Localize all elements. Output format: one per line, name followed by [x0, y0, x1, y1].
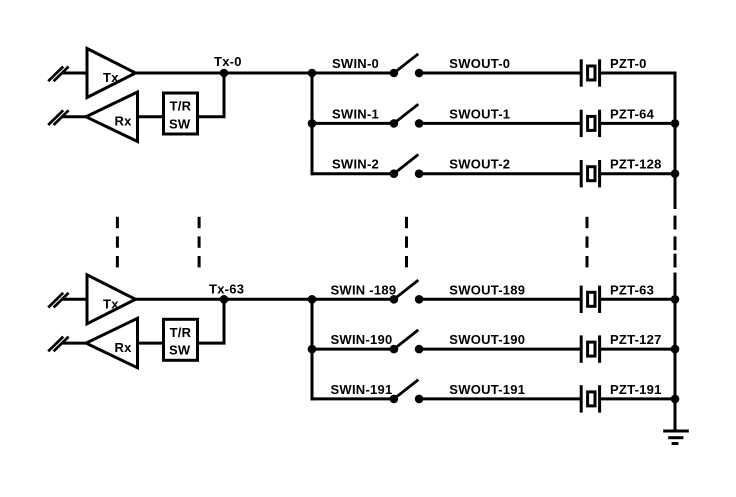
wire: node Tx-63 to left bus — [224, 298, 312, 301]
svg-text:PZT-63: PZT-63 — [610, 282, 654, 297]
svg-text:PZT-0: PZT-0 — [610, 56, 647, 71]
dashed continuation: PZT column — [586, 217, 589, 268]
wire: Rx input from T/R SW (bottom channel) — [138, 342, 163, 345]
svg-text:SWOUT-2: SWOUT-2 — [449, 157, 510, 172]
svg-text:Rx: Rx — [115, 340, 133, 355]
wire: left bus to switch SWIN-190 — [311, 348, 394, 351]
wire: left bus (top section) — [311, 73, 314, 175]
svg-text:PZT-128: PZT-128 — [610, 157, 662, 172]
node Tx-63 junction dot — [220, 295, 229, 304]
svg-text:SWOUT-0: SWOUT-0 — [449, 56, 510, 71]
amplifier Tx (top channel) — [87, 49, 136, 98]
dashed continuation: right bus — [674, 216, 677, 268]
junction dot: right bus at PZT-64 — [671, 119, 680, 128]
wire: PZT-191 to right bus — [600, 397, 675, 400]
dashed continuation: T/R SW column — [198, 217, 201, 268]
svg-text:Tx: Tx — [103, 296, 119, 311]
wire: T/R SW output up to node Tx-0 — [199, 73, 224, 117]
wire: left bus to switch SWIN-1 — [311, 122, 394, 125]
junction dot: left bus at SWIN-0 — [308, 69, 317, 78]
svg-text:PZT-64: PZT-64 — [610, 106, 655, 121]
wire: left bus to switch SWIN -189 — [311, 298, 394, 301]
wire: switch to PZT-127 — [419, 348, 581, 351]
wire: Tx input stub (bottom channel) — [63, 298, 87, 301]
wire: switch to PZT-128 — [419, 172, 581, 175]
wire: Rx output stub (top channel) — [63, 115, 86, 118]
wire: PZT-63 to right bus — [600, 298, 675, 301]
dashed continuation: amplifier column — [116, 217, 119, 268]
transducer PZT-128 (crystal symbol) — [581, 160, 599, 187]
svg-text:SWOUT-190: SWOUT-190 — [449, 332, 525, 347]
svg-text:SWOUT-189: SWOUT-189 — [449, 282, 525, 297]
amplifier Tx (bottom channel) — [87, 275, 136, 324]
wire: right bus (bottom section, to ground) — [674, 273, 677, 432]
svg-text:SWOUT-191: SWOUT-191 — [449, 382, 525, 397]
svg-text:Tx-63: Tx-63 — [209, 281, 244, 296]
switch SWIN-190/SWOUT-190 (open SPST) — [390, 330, 424, 354]
wire: Tx output to node Tx-0 — [136, 72, 225, 75]
svg-text:PZT-127: PZT-127 — [610, 332, 662, 347]
svg-text:T/R: T/R — [170, 325, 192, 340]
wire: PZT-0 to right bus — [600, 72, 675, 75]
switch SWIN -189/SWOUT-189 (open SPST) — [390, 280, 424, 304]
wire: T/R SW output up to node Tx-63 — [199, 299, 224, 343]
amplifier Rx (top channel) — [86, 92, 138, 142]
switch SWIN-1/SWOUT-1 (open SPST) — [390, 104, 424, 128]
wire: left bus (bottom section) — [311, 299, 314, 400]
transducer PZT-64 (crystal symbol) — [581, 110, 599, 137]
continuation slashes on Rx output (top channel) — [48, 110, 68, 125]
wire: switch to PZT-63 — [419, 298, 581, 301]
continuation slashes on Tx input (top channel) — [48, 67, 68, 82]
wire: switch to PZT-64 — [419, 122, 581, 125]
wire: switch to PZT-191 — [419, 397, 581, 400]
svg-text:PZT-191: PZT-191 — [610, 382, 662, 397]
junction dot: right bus at PZT-127 — [671, 345, 680, 354]
transducer PZT-63 (crystal symbol) — [581, 286, 599, 313]
T/R switch box (bottom channel) — [164, 319, 198, 360]
wire: left bus to switch SWIN-0 — [311, 72, 394, 75]
svg-text:SWIN-191: SWIN-191 — [331, 382, 393, 397]
junction dot: left bus at SWIN-190 — [308, 345, 317, 354]
switch SWIN-0/SWOUT-0 (open SPST) — [390, 54, 424, 77]
wire: right bus (top section) — [674, 72, 677, 210]
svg-text:SW: SW — [169, 116, 191, 131]
wire: PZT-128 to right bus — [600, 172, 675, 175]
node Tx-0 junction dot — [220, 69, 229, 78]
wire: node Tx-0 to left bus — [224, 72, 312, 75]
wire: Tx output to node Tx-63 — [136, 298, 225, 301]
wire: PZT-127 to right bus — [600, 348, 675, 351]
svg-text:Tx: Tx — [103, 70, 119, 85]
switch SWIN-2/SWOUT-2 (open SPST) — [390, 155, 424, 179]
transducer PZT-0 (crystal symbol) — [581, 59, 599, 86]
junction dot: left bus at SWIN-1 — [308, 119, 317, 128]
svg-text:T/R: T/R — [170, 99, 192, 114]
T/R switch box (top channel) — [164, 93, 198, 134]
junction dot: left bus at SWIN -189 — [308, 295, 317, 304]
junction dot: right bus at PZT-191 — [671, 395, 680, 404]
ground symbol — [663, 431, 689, 444]
svg-text:SWOUT-1: SWOUT-1 — [449, 106, 510, 121]
junction dot: right bus at PZT-128 — [671, 169, 680, 178]
svg-text:SWIN-2: SWIN-2 — [332, 157, 379, 172]
svg-text:SWIN-0: SWIN-0 — [332, 56, 379, 71]
dashed continuation: switch column — [405, 217, 408, 268]
wire: switch to PZT-0 — [419, 72, 581, 75]
wire: Rx input from T/R SW (top channel) — [138, 115, 163, 118]
svg-text:SWIN-190: SWIN-190 — [331, 332, 393, 347]
continuation slashes on Tx input (bottom channel) — [48, 293, 68, 308]
wire: Rx output stub (bottom channel) — [63, 342, 86, 345]
svg-text:SWIN-1: SWIN-1 — [332, 106, 379, 121]
svg-text:Tx-0: Tx-0 — [214, 54, 242, 69]
wire: left bus to switch SWIN-191 — [311, 397, 394, 400]
svg-text:SW: SW — [169, 343, 191, 358]
amplifier Rx (bottom channel) — [86, 318, 138, 368]
transducer PZT-127 (crystal symbol) — [581, 335, 599, 362]
wire: left bus to switch SWIN-2 — [311, 172, 394, 175]
junction dot: right bus at PZT-63 — [671, 295, 680, 304]
transducer PZT-191 (crystal symbol) — [581, 385, 599, 412]
wire: Tx input stub (top channel) — [63, 72, 87, 75]
continuation slashes on Rx output (bottom channel) — [48, 337, 68, 352]
svg-text:Rx: Rx — [115, 114, 133, 129]
switch SWIN-191/SWOUT-191 (open SPST) — [390, 380, 424, 404]
svg-text:SWIN -189: SWIN -189 — [331, 282, 397, 297]
wire: PZT-64 to right bus — [600, 122, 675, 125]
